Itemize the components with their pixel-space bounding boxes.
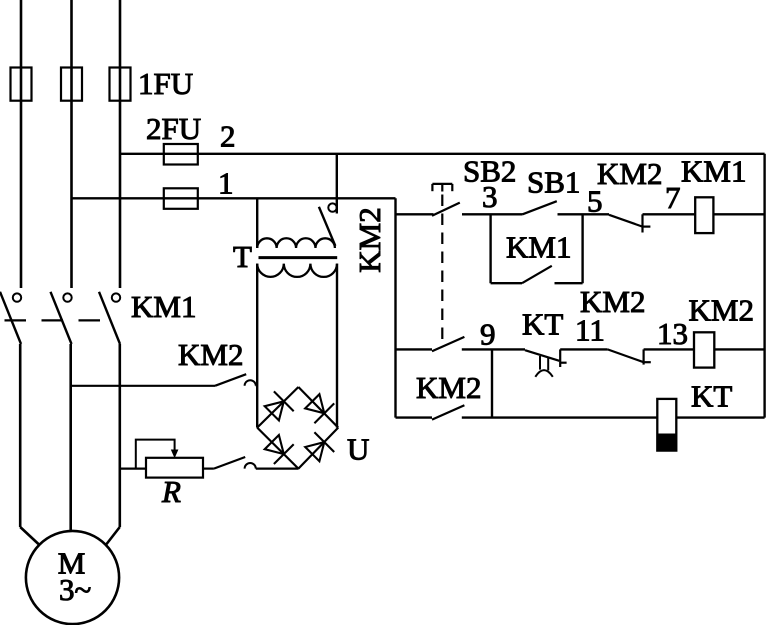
svg-text:2: 2 [220,119,236,154]
svg-text:2FU: 2FU [146,111,201,146]
svg-text:SB1: SB1 [527,165,580,200]
svg-text:1FU: 1FU [138,66,193,101]
svg-text:T: T [233,239,252,274]
svg-text:KT: KT [522,307,563,342]
svg-text:KM1: KM1 [506,230,571,265]
svg-text:KM1: KM1 [681,154,746,189]
svg-text:KM2: KM2 [352,207,387,272]
svg-text:KM2: KM2 [689,293,754,328]
svg-text:KM2: KM2 [580,284,645,319]
svg-text:KT: KT [691,379,732,414]
svg-text:3: 3 [482,179,498,214]
svg-text:KM2: KM2 [178,337,243,372]
svg-text:KM1: KM1 [131,289,196,324]
svg-text:R: R [161,474,181,509]
svg-text:3~: 3~ [59,572,91,607]
svg-text:KM2: KM2 [416,370,481,405]
svg-text:9: 9 [480,317,496,352]
svg-text:7: 7 [665,180,681,215]
svg-text:1: 1 [218,166,234,201]
svg-text:U: U [347,432,369,467]
svg-text:KM2: KM2 [597,156,662,191]
svg-text:13: 13 [657,316,688,351]
